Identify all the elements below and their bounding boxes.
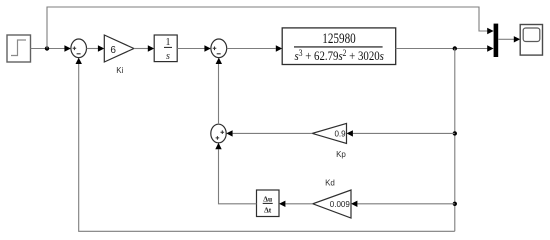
arrowhead into mux input 2 xyxy=(487,45,493,51)
arrowhead into mux input 1 xyxy=(487,28,493,34)
junction dot C at Kp branch xyxy=(453,131,457,135)
junction dot A xyxy=(45,46,49,50)
arrowhead into integrator xyxy=(148,45,154,51)
sum S1 xyxy=(71,39,87,58)
svg-text:Kp: Kp xyxy=(336,150,346,159)
junction dot B on output line xyxy=(453,46,457,50)
svg-text:s3 + 62.79s2 + 3020s: s3 + 62.79s2 + 3020s xyxy=(295,48,385,63)
svg-text:Ki: Ki xyxy=(116,66,123,75)
sum S3 xyxy=(211,124,226,143)
junction dot D at Kd branch xyxy=(453,202,457,206)
arrowhead into derivative xyxy=(279,201,285,207)
wire gain Kp to sum S3 xyxy=(233,132,313,134)
svg-text:Δt: Δt xyxy=(264,206,272,215)
transfer function block 125980/(s^3+62.79s^2+3020s) xyxy=(282,28,396,65)
integrator block 1/s xyxy=(154,35,177,62)
gain Kd triangle value 0.009 xyxy=(313,190,351,218)
svg-text:Δu: Δu xyxy=(263,194,272,203)
scope block xyxy=(520,25,542,56)
wire top feedforward to mux xyxy=(47,7,488,49)
wire transfer fcn to mux xyxy=(396,48,488,50)
svg-text:1: 1 xyxy=(166,37,171,48)
wire sum S2 to transfer fcn xyxy=(227,48,276,50)
wire derivative to sum S3 xyxy=(219,149,257,204)
arrowhead into sum S2 west xyxy=(204,45,210,51)
derivative block du/dt xyxy=(257,190,280,217)
svg-text:Kd: Kd xyxy=(325,179,335,188)
arrowhead into sum S3 south xyxy=(215,143,221,149)
arrowhead into gain Kp xyxy=(347,130,353,136)
arrowhead into gain Kd xyxy=(351,201,357,207)
arrowhead into sum S1 south xyxy=(76,58,82,64)
gain Kp triangle value 0.9 xyxy=(312,123,346,143)
wire mux to scope xyxy=(498,38,514,40)
arrowhead into transfer fcn xyxy=(276,45,282,51)
svg-text:s: s xyxy=(166,51,170,62)
arrowhead into sum S3 east xyxy=(226,130,232,136)
sum S2 xyxy=(211,39,227,58)
arrowhead into scope xyxy=(514,36,520,42)
mux bar xyxy=(494,24,499,57)
wire sum S1 to gain Ki xyxy=(87,48,99,50)
wire step to sum S1 xyxy=(31,48,65,50)
arrowhead into gain Ki xyxy=(98,45,104,51)
wire to gain Kp xyxy=(353,132,455,134)
svg-text:125980: 125980 xyxy=(322,31,356,47)
wire integrator to sum S2 xyxy=(177,48,204,50)
svg-text:0.009: 0.009 xyxy=(330,200,351,209)
gain Ki triangle value 6 xyxy=(104,35,134,62)
step source block xyxy=(7,35,31,62)
wire sum S3 to sum S2 xyxy=(218,64,220,124)
arrowhead into sum S1 west xyxy=(64,45,71,51)
svg-text:6: 6 xyxy=(110,45,116,56)
wire to gain Kd xyxy=(357,203,454,205)
wire gain Kd to derivative xyxy=(285,203,312,205)
wire gain Ki to integrator xyxy=(134,48,148,50)
svg-text:0.9: 0.9 xyxy=(334,129,346,138)
wire bottom feedback to sum S1 xyxy=(79,64,455,231)
wire right vertical feedback xyxy=(454,49,456,232)
arrowhead into sum S2 south xyxy=(216,58,222,64)
